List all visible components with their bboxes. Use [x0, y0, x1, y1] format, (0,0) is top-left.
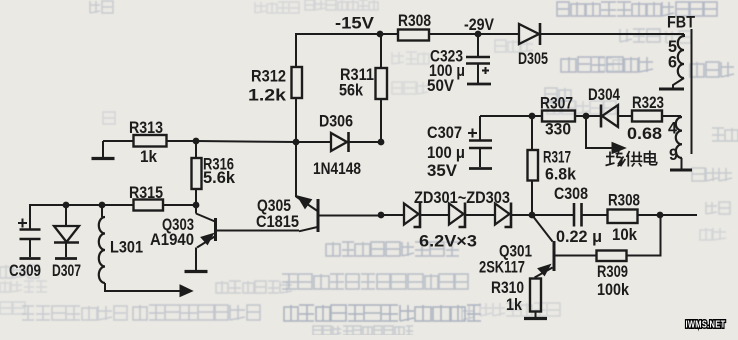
wire node to R307 [532, 115, 542, 117]
svg-text:1.2k: 1.2k [248, 86, 287, 105]
ground R313 left [92, 141, 115, 159]
svg-text:4: 4 [668, 120, 678, 138]
wire node to ZD301 [381, 214, 404, 216]
inductor L301 [99, 205, 143, 283]
svg-text:9: 9 [669, 146, 678, 164]
svg-text:A1940: A1940 [150, 231, 194, 249]
label FBT [667, 14, 695, 32]
svg-text:56k: 56k [339, 82, 364, 100]
resistor R309 [597, 251, 630, 300]
wire C309 corner to R315 row [30, 204, 134, 206]
label -15V [335, 15, 374, 33]
svg-text:R312: R312 [251, 68, 286, 86]
svg-text:C1815: C1815 [256, 213, 299, 231]
svg-text:FBT: FBT [667, 14, 695, 32]
capacitor C323 [427, 34, 491, 95]
svg-text:D306: D306 [319, 113, 353, 131]
wire ZD302 to ZD303 [465, 214, 495, 216]
diode D307 [52, 205, 81, 280]
wire R315 to Q303 node [163, 204, 196, 206]
resistor R317 [528, 116, 577, 215]
capacitor C309 [9, 204, 41, 280]
svg-text:-15V: -15V [335, 15, 374, 33]
wire Q305 to ZD node [318, 215, 381, 217]
svg-text:10k: 10k [612, 226, 638, 244]
svg-text:0.68: 0.68 [627, 125, 662, 143]
node R313 / R316 [193, 138, 200, 145]
svg-text:R310: R310 [491, 279, 524, 297]
wire node to right end [660, 214, 697, 216]
wire ground to R313 [103, 140, 134, 142]
svg-text:R308: R308 [398, 12, 431, 30]
node R307 / R317 [529, 113, 536, 120]
node R315 / R316 / Q303 base [193, 202, 200, 209]
node D304 / field supply [583, 113, 590, 120]
node -29V / C323 [475, 31, 482, 38]
wire node down to R309 [627, 215, 661, 256]
wire C307 corner [479, 116, 481, 140]
svg-text:50V: 50V [427, 77, 454, 95]
diode D306 [296, 113, 381, 179]
diode D305 [518, 23, 548, 68]
svg-text:1N4148: 1N4148 [313, 160, 361, 178]
ground R310 [524, 312, 547, 319]
FBT winding 4-9 [668, 117, 682, 164]
resistor R313 [129, 119, 167, 166]
wire R313 to node [167, 140, 197, 142]
wire corner to R312 [295, 33, 297, 67]
svg-text:R317: R317 [543, 149, 571, 167]
node -15V rail / R311 [377, 31, 384, 38]
ground Q303 emitter [185, 248, 208, 272]
ground FBT pin9 [670, 169, 692, 172]
svg-text:6.2V×3: 6.2V×3 [419, 233, 477, 251]
node ZD row left [378, 212, 385, 219]
ground FBT pin6 [659, 88, 684, 91]
wire D305 to FBT pin5 [540, 33, 684, 35]
svg-text:0.22 μ: 0.22 μ [556, 228, 602, 246]
transistor Q303 [150, 205, 216, 249]
transistor Q305 [256, 142, 318, 232]
node D306 right [378, 139, 385, 146]
label -29V [464, 16, 494, 34]
wire Q303 collector to Q305 [216, 227, 318, 231]
wire R312 to D306 node [295, 98, 297, 142]
wire node to D306 node [196, 141, 296, 142]
svg-text:R323: R323 [632, 94, 664, 112]
node ZD / R317 / Q301 gate [529, 212, 536, 219]
arrow to horizontal drive [180, 285, 193, 297]
watermark IWMS.NET [686, 320, 726, 331]
svg-text:ZD301~ZD303: ZD301~ZD303 [414, 189, 510, 207]
wire top rail -15V segment [296, 33, 398, 35]
wire R307 to D304 node [575, 115, 601, 117]
resistor R308 (top) [398, 12, 431, 41]
wire R309 to Q301 drain [554, 255, 597, 257]
capacitor C307 [427, 124, 492, 180]
resistor R312 [248, 67, 302, 105]
svg-text:C307: C307 [427, 124, 462, 142]
zener diode ZD302 [449, 203, 465, 228]
arrow field supply [612, 143, 626, 154]
svg-text:IWMS.NET: IWMS.NET [686, 320, 726, 331]
wire L301 bottom corner [105, 283, 181, 291]
svg-text:L301: L301 [110, 239, 143, 257]
svg-text:6.8k: 6.8k [545, 166, 577, 184]
node D306 left [293, 139, 300, 146]
wire field supply tap [586, 116, 613, 148]
transistor Q301 (2SK117) [479, 215, 554, 277]
resistor R315 [129, 184, 163, 211]
svg-text:R307: R307 [540, 95, 573, 113]
svg-text:6: 6 [668, 54, 677, 72]
diode D304 [588, 86, 621, 128]
svg-text:C308: C308 [554, 185, 588, 203]
resistor R311 [339, 34, 387, 100]
resistor R323 [627, 94, 664, 143]
wire C308 to R308 [582, 214, 608, 216]
svg-text:R313: R313 [129, 119, 163, 137]
svg-text:D307: D307 [52, 262, 81, 280]
label field-supply (Chinese) [606, 151, 657, 167]
wire R323 to FBT pin4 [662, 115, 681, 117]
svg-text:R309: R309 [597, 263, 628, 281]
resistor R307 [540, 95, 575, 139]
node D307 top [63, 202, 70, 209]
node R308 / R309 [657, 212, 664, 219]
wire winding 9 to ground [681, 158, 683, 169]
wire C307 to R317 node [480, 115, 532, 117]
svg-text:100 μ: 100 μ [427, 144, 465, 162]
wire D304 to R323 [618, 115, 632, 117]
svg-text:330: 330 [545, 121, 571, 139]
FBT winding 5-6 [668, 34, 684, 78]
resistor R316 [192, 141, 236, 205]
wire ZD303 to node [511, 214, 532, 216]
svg-text:100k: 100k [597, 281, 630, 299]
svg-text:D305: D305 [518, 50, 548, 68]
node L301 top [99, 202, 106, 209]
svg-text:2SK117: 2SK117 [479, 259, 525, 277]
wire ZD301 to ZD302 [420, 214, 449, 216]
svg-text:C309: C309 [9, 262, 41, 280]
svg-text:1k: 1k [506, 296, 523, 314]
wire R308 to node [638, 214, 661, 216]
zener diode ZD301 [404, 203, 420, 228]
FBT core line [691, 29, 693, 154]
resistor R308 (right) [608, 192, 641, 245]
svg-text:5.6k: 5.6k [203, 169, 236, 187]
resistor R310 [491, 276, 541, 314]
svg-text:R315: R315 [129, 184, 163, 202]
svg-text:D304: D304 [588, 86, 621, 104]
svg-text:35V: 35V [427, 162, 457, 180]
wire R311 to D306 node [380, 99, 382, 142]
wire winding to ground [673, 78, 684, 88]
zener diode ZD303 [414, 189, 511, 251]
capacitor C308 [532, 185, 602, 246]
svg-text:R308: R308 [608, 192, 640, 210]
wire R308 to -29V node [429, 33, 519, 35]
svg-text:1k: 1k [140, 148, 158, 166]
